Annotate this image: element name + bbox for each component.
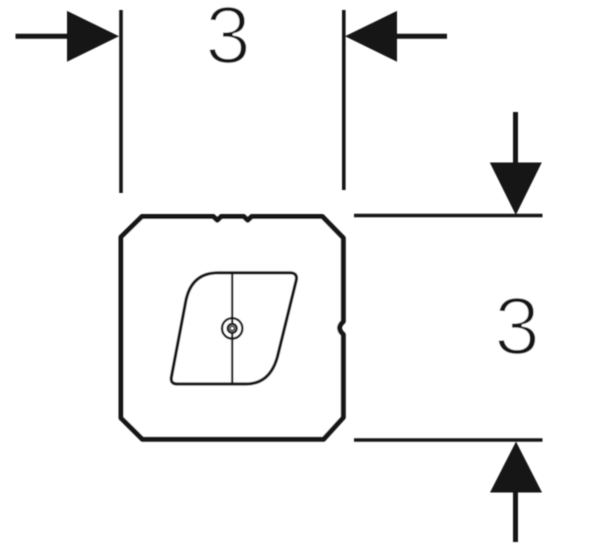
center line through lever [231, 273, 233, 384]
extension line left (width dim) [119, 10, 123, 193]
dimension arrow left head [67, 11, 119, 62]
screw middle ring [228, 324, 237, 333]
dimension arrow right tail [397, 34, 447, 39]
svg-text:3: 3 [494, 281, 540, 372]
screw outer circle [222, 318, 242, 338]
screw center dot [230, 326, 234, 330]
dimension arrow right head [345, 11, 397, 62]
extension line bottom (height dim) [354, 438, 543, 442]
dimension arrow left tail [16, 34, 69, 39]
dimension arrow down tail [513, 112, 518, 163]
dimension arrow up head [490, 442, 542, 493]
screw inner faint ring [229, 326, 235, 332]
dimension arrow up tail [513, 493, 518, 543]
part outline: chamfered square faceplate with molding notches [121, 217, 343, 440]
extension line top (height dim) [354, 214, 543, 218]
inner shape: actuator lever plate [171, 273, 296, 384]
svg-text:3: 3 [205, 0, 251, 81]
extension line right (width dim) [342, 10, 346, 190]
dimension arrow down head [490, 163, 542, 216]
